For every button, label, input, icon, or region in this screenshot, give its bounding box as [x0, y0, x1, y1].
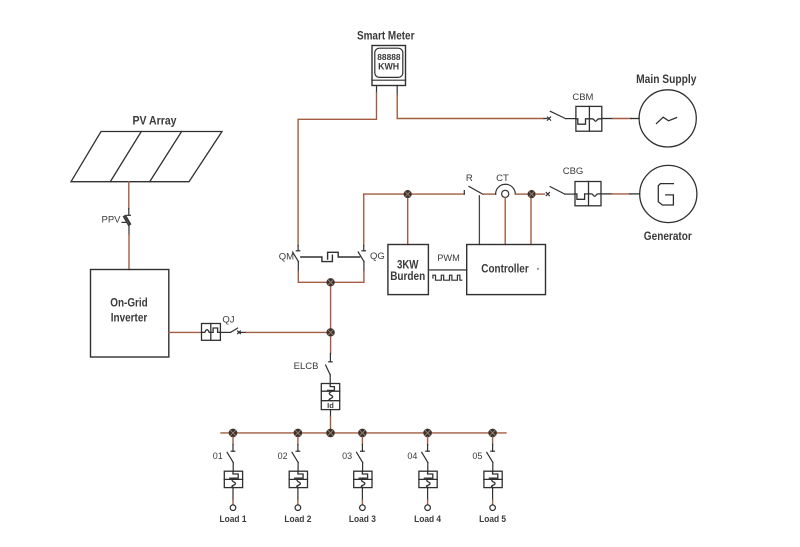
breaker box load 1 [224, 471, 242, 487]
node D junction [528, 190, 536, 198]
wire burden to controller (PWM) [428, 269, 466, 271]
wire PPV to inverter [128, 235, 130, 270]
terminal load 1 [230, 505, 236, 511]
breaker box ELCB [321, 384, 339, 410]
svg-text:Main Supply: Main Supply [636, 74, 697, 86]
svg-text:Load 1: Load 1 [220, 514, 248, 525]
breaker QJ [202, 324, 221, 341]
wire QG to node A [335, 262, 364, 283]
svg-text:KWH: KWH [378, 62, 399, 72]
svg-text:Id: Id [327, 401, 334, 410]
terminal load 3 [360, 505, 366, 511]
wire R switch to controller [478, 196, 480, 245]
wire QJ to node B [246, 331, 331, 333]
switch 03 [357, 445, 365, 472]
wire load 3 breaker to terminal [361, 488, 363, 505]
wire PV array to PPV switch [128, 182, 130, 209]
svg-text:Load 5: Load 5 [479, 514, 507, 525]
wire CBG to generator [601, 193, 640, 195]
switch 02 [292, 445, 300, 472]
svg-text:Smart Meter: Smart Meter [357, 31, 415, 43]
node load 5 junction [488, 429, 497, 438]
wire load 2 breaker to terminal [297, 488, 299, 505]
svg-text:03: 03 [342, 451, 352, 461]
svg-text:02: 02 [278, 451, 288, 461]
wire bus to switch 02 [297, 437, 299, 444]
svg-text:CBG: CBG [563, 166, 584, 177]
switch PPV [122, 209, 131, 235]
wire bus to switch 04 [427, 437, 429, 444]
switch CBM [547, 111, 576, 120]
breaker box load 5 [484, 471, 502, 487]
wire meter right terminal to CBM switch [397, 95, 544, 119]
wire QM to node A [298, 262, 326, 283]
wire CT to node D [515, 193, 527, 195]
terminal load 2 [295, 505, 301, 511]
svg-text:PV Array: PV Array [133, 116, 178, 128]
svg-text:Load 2: Load 2 [284, 514, 311, 525]
wire load 1 breaker to terminal [232, 488, 234, 505]
switch QG [358, 246, 365, 262]
switch 04 [422, 445, 430, 472]
svg-text:05: 05 [472, 451, 482, 461]
wire node D to CBG switch [536, 193, 545, 195]
node C junction (burden tap) [404, 190, 412, 198]
mechanical interlock QM-QG [301, 252, 360, 261]
wire bus to switch 01 [232, 437, 234, 444]
wire load 5 breaker to terminal [492, 488, 494, 505]
wire QG top from generator line [363, 194, 365, 245]
wire bus to switch 03 [361, 437, 363, 444]
wire node C to burden [407, 198, 409, 244]
switch 05 [487, 445, 495, 472]
switch QJ [220, 328, 246, 334]
PWM square wave symbol [433, 275, 462, 280]
svg-text:04: 04 [407, 451, 417, 461]
svg-text:Load 3: Load 3 [349, 514, 376, 525]
node A junction [326, 278, 334, 286]
svg-text:CBM: CBM [572, 92, 593, 103]
node load 2 junction [294, 429, 303, 438]
svg-text:88888: 88888 [377, 52, 401, 62]
wire load 4 breaker to terminal [427, 488, 429, 505]
PV array panel [71, 132, 222, 182]
wire R to CT [483, 193, 496, 195]
svg-text:PPV: PPV [101, 214, 121, 225]
wire meter left terminal to QM [298, 93, 376, 246]
On-Grid Inverter box [91, 270, 169, 358]
svg-text:R: R [466, 173, 473, 184]
source Generator [640, 165, 697, 222]
wire node A to node B [330, 287, 332, 329]
node load 1 junction [229, 429, 238, 438]
terminal load 5 [490, 505, 496, 511]
switch 01 [227, 445, 235, 472]
breaker CBG [575, 182, 601, 206]
svg-text:PWM: PWM [437, 253, 460, 264]
switch CBG [546, 187, 575, 196]
breaker box load 3 [354, 471, 372, 487]
svg-text:Burden: Burden [390, 271, 425, 283]
wire CT to controller [504, 198, 506, 245]
svg-text:QJ: QJ [222, 314, 234, 325]
load bus wire [221, 432, 506, 434]
node load 4 junction [423, 429, 432, 438]
Controller box [467, 245, 546, 295]
switch R [464, 186, 483, 194]
svg-text:Controller: Controller [481, 262, 529, 276]
breaker CBM [576, 106, 602, 131]
current transformer CT [496, 184, 516, 197]
svg-text:CT: CT [496, 173, 509, 184]
wire ELCB to bus [330, 410, 332, 433]
svg-text:3KW: 3KW [397, 260, 419, 272]
wire generator line QG corner to R switch [364, 193, 465, 195]
source Main Supply [639, 90, 696, 147]
wire bus to switch 05 [492, 437, 494, 444]
wire node D to controller [530, 198, 532, 244]
svg-text:01: 01 [213, 451, 223, 461]
smart meter [372, 46, 406, 96]
node E junction (ELCB to bus) [326, 429, 335, 438]
node B junction [326, 328, 334, 336]
svg-text:Load 4: Load 4 [414, 514, 442, 525]
breaker box load 4 [419, 471, 437, 487]
svg-text:QM: QM [279, 252, 294, 263]
switch ELCB [326, 354, 333, 384]
switch QM [293, 246, 300, 262]
breaker box load 2 [289, 471, 307, 487]
node load 3 junction [358, 429, 367, 438]
terminal load 4 [425, 505, 431, 511]
svg-text:Inverter: Inverter [111, 312, 148, 324]
wire CBM to main supply [602, 118, 639, 120]
svg-text:QG: QG [370, 251, 385, 262]
wire node B to ELCB [330, 337, 332, 354]
resistor box 3KW Burden [388, 245, 429, 295]
svg-text:Generator: Generator [644, 231, 692, 243]
svg-text:ELCB: ELCB [294, 361, 319, 372]
wire inverter to QJ breaker [169, 331, 202, 333]
svg-text:On-Grid: On-Grid [110, 297, 148, 309]
